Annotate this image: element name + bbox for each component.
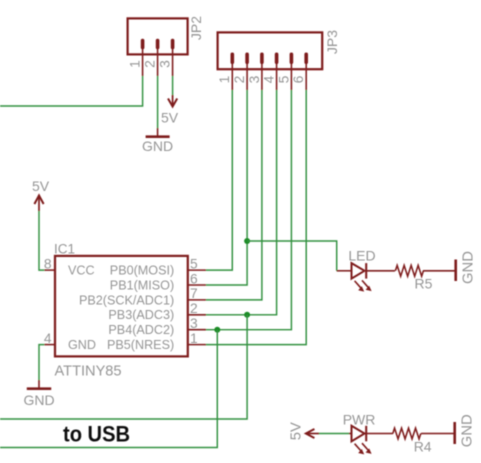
JP2 pin 1	[128, 39, 145, 76]
IC1 pin 4 (GND)	[44, 331, 55, 346]
svg-text:LED: LED	[348, 248, 375, 264]
svg-text:4: 4	[262, 75, 277, 83]
wire VCC to 5V arrow	[39, 211, 44, 270]
JP3 pin 6	[291, 53, 308, 91]
svg-text:JP2: JP2	[188, 16, 204, 40]
svg-text:GND: GND	[68, 338, 96, 352]
connector JP2	[128, 16, 204, 55]
svg-text:5V: 5V	[161, 110, 179, 126]
svg-text:PB5(NRES): PB5(NRES)	[107, 338, 174, 352]
wire green to PWR LED anode	[349, 433, 352, 435]
wire R5 to GND	[423, 270, 455, 272]
svg-text:6: 6	[291, 75, 306, 83]
svg-text:GND: GND	[461, 251, 477, 284]
svg-text:GND: GND	[142, 138, 173, 154]
JP3 pin 5	[276, 53, 293, 91]
svg-text:8: 8	[44, 256, 52, 271]
svg-text:4: 4	[44, 331, 52, 346]
IC1 pin 7 stub	[188, 286, 206, 301]
JP3 pin 3	[247, 53, 264, 91]
ground GND right of R5	[456, 251, 477, 284]
junction node USB D- tap on PB3 net	[244, 312, 250, 318]
IC1 pin 8 (VCC)	[44, 256, 55, 271]
svg-text:5V: 5V	[32, 178, 50, 194]
wire JP2 pin2 down	[157, 76, 159, 128]
svg-text:5V: 5V	[289, 422, 305, 440]
svg-text:GND: GND	[23, 392, 54, 408]
resistor R5	[395, 265, 432, 291]
wire JP3 pin5 to IC pin3	[206, 90, 291, 330]
supply 5V arrow (down) under JP2 pin3	[161, 95, 179, 126]
ground GND bottom right	[455, 414, 476, 447]
wire JP3 pin2 to IC pin6	[206, 90, 247, 285]
svg-text:2: 2	[232, 76, 247, 84]
svg-text:5: 5	[190, 256, 198, 271]
svg-text:2: 2	[143, 60, 158, 68]
svg-text:IC1: IC1	[54, 242, 75, 257]
svg-text:PB0(MOSI): PB0(MOSI)	[110, 264, 174, 278]
svg-text:7: 7	[190, 286, 198, 301]
wire maroon into LED anode	[337, 270, 352, 272]
IC1 pin 5 stub	[188, 256, 206, 271]
IC1 pin labels	[68, 264, 174, 353]
svg-text:1: 1	[217, 76, 232, 84]
wire PB4 down to USB lower line	[0, 330, 217, 448]
wire JP3 pin4 to IC pin2	[206, 90, 277, 315]
connector JP3	[218, 30, 340, 69]
svg-text:ATTINY85: ATTINY85	[55, 364, 122, 380]
wire PB3 down to USB upper line	[0, 315, 247, 419]
wire JP2 pin3 down	[172, 76, 174, 95]
IC1 pin 1 stub	[188, 331, 206, 346]
svg-text:2: 2	[190, 301, 198, 316]
svg-text:PWR: PWR	[343, 412, 376, 428]
svg-text:3: 3	[247, 75, 262, 83]
svg-text:6: 6	[190, 271, 198, 286]
svg-text:3: 3	[158, 60, 173, 68]
svg-text:3: 3	[190, 316, 198, 331]
svg-text:1: 1	[128, 60, 143, 68]
supply 5V arrow (left) bottom right	[289, 422, 320, 440]
LED D (signal LED)	[348, 248, 375, 292]
ground GND under JP2	[142, 128, 173, 154]
svg-text:PB1(MISO): PB1(MISO)	[110, 278, 174, 292]
resistor R4	[393, 428, 432, 454]
JP3 pin 2	[232, 53, 249, 91]
JP3 pin 1	[217, 53, 234, 91]
wire JP3 pin1 to IC pin5	[206, 90, 232, 270]
IC1 pin 3 stub	[188, 316, 206, 331]
JP2 pin 2	[143, 39, 160, 76]
svg-text:PB3(ADC3): PB3(ADC3)	[108, 308, 174, 322]
wire junction to LED corner	[247, 241, 337, 271]
svg-text:GND: GND	[460, 414, 476, 447]
wire JP3 pin3 to IC pin7	[206, 90, 262, 300]
wire LED cathode to R5	[366, 270, 395, 272]
svg-text:1: 1	[190, 331, 198, 346]
svg-text:PB4(ADC2): PB4(ADC2)	[108, 323, 174, 337]
wire IC1 GND pin down	[39, 345, 44, 380]
wire R4 to GND	[421, 433, 454, 435]
op-amp IC1 ATTINY85 body	[54, 242, 188, 380]
JP2 pin 3	[158, 39, 175, 76]
svg-text:PB2(SCK/ADC1): PB2(SCK/ADC1)	[79, 293, 174, 307]
wire JP3 pin6 to IC pin1	[206, 90, 306, 345]
IC1 pin 6 stub	[188, 271, 206, 286]
svg-text:5: 5	[276, 75, 291, 83]
ground GND under IC1	[23, 380, 54, 408]
svg-text:R5: R5	[415, 276, 433, 292]
supply 5V arrow (up) above IC1	[32, 178, 50, 211]
JP3 pin 4	[262, 53, 279, 91]
svg-text:JP3: JP3	[324, 30, 340, 54]
wire 5V to PWR LED	[319, 433, 349, 435]
svg-text:R4: R4	[414, 439, 432, 455]
IC1 pin 2 stub	[188, 301, 206, 316]
svg-text:VCC: VCC	[68, 264, 95, 278]
junction node LED tap on MISO net	[244, 238, 250, 244]
wire JP2 pin1 to left edge	[0, 76, 143, 106]
junction node USB D+ tap on PB4 net	[214, 327, 220, 333]
wire PWR LED cathode to R4	[366, 433, 393, 435]
LED PWR (power LED)	[343, 412, 376, 455]
svg-text:to USB: to USB	[63, 422, 130, 447]
